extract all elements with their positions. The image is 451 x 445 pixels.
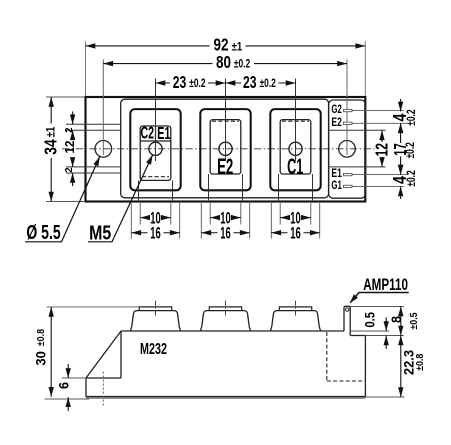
terminal T2 center extension (225, 79, 227, 162)
T1 legs (139, 180, 173, 200)
dim 8 ±0.5 (350, 306, 404, 308)
terminal T2 recess (200, 109, 250, 190)
terminal plate at 225.5 (209, 307, 241, 310)
svg-text:16: 16 (290, 224, 301, 243)
svg-text:±0.2: ±0.2 (234, 58, 251, 71)
mounting hole right (339, 141, 356, 158)
svg-text:G2: G2 (331, 104, 342, 117)
dim 22.3 ±0.8 (365, 396, 404, 398)
terminal T3 center extension (295, 79, 297, 162)
aux pin G1 (344, 185, 353, 187)
dim 80 ±0.2 (103, 63, 347, 65)
svg-text:0.5: 0.5 (363, 312, 378, 327)
horizontal centerline (62, 148, 375, 150)
side view body outline (86, 306, 365, 396)
svg-text:M5: M5 (89, 220, 111, 243)
svg-text:30: 30 (33, 351, 49, 365)
right compartment slot lines (329, 130, 386, 167)
T3 legs (279, 174, 313, 200)
svg-text:±0.2: ±0.2 (405, 142, 418, 159)
terminal bump block at 225.5 (200, 311, 250, 331)
dim 6 (45, 378, 90, 399)
svg-text:±0.2: ±0.2 (406, 109, 419, 126)
dim 10 under T2 (210, 203, 241, 225)
svg-text:12: 12 (62, 140, 77, 153)
hidden recess dashed lines (327, 332, 366, 381)
terminal T3 screw hole (289, 142, 302, 155)
dim 0.5 (350, 330, 389, 332)
terminal plate at 155.5 (139, 307, 171, 310)
dim 12 left (72, 130, 74, 136)
T1 dashed line (142, 176, 169, 178)
aux pin E2 (344, 122, 353, 124)
svg-text:2: 2 (64, 127, 75, 132)
dim 12 right (381, 130, 383, 167)
svg-text:34: 34 (41, 139, 61, 155)
bump centerline tick at 295.5 (295, 301, 297, 317)
pin row extension lines (352, 111, 408, 187)
bump centerline tick at 155.5 (155, 301, 157, 317)
dim 10 under T3 (280, 203, 311, 225)
svg-text:23: 23 (173, 73, 186, 93)
dim 34 ±1 (46, 97, 84, 202)
terminal T1 recess (130, 109, 180, 190)
baseplate bottom heavy line (86, 397, 365, 399)
dim 4 ±0.2 bottom right (398, 165, 403, 175)
dim 30 ±0.8 (47, 306, 140, 308)
dim 16 under T3 (271, 203, 319, 239)
dim 17 ±0.2 right (400, 123, 402, 174)
left slot lines (66, 124, 122, 173)
svg-text:±0.2: ±0.2 (189, 78, 206, 91)
aux pin E1 (344, 173, 353, 175)
terminal T2 pad (210, 120, 241, 174)
right end cap (329, 100, 366, 198)
bump centerline tick at 225.5 (225, 301, 227, 317)
dim 92 ±1 (86, 42, 366, 97)
terminal bump block at 295.5 (270, 311, 320, 331)
svg-text:AMP110: AMP110 (363, 276, 408, 294)
terminal plate at 295.5 (279, 307, 311, 310)
T3 dashed line (282, 120, 309, 122)
T2 legs (209, 174, 243, 200)
terminal T2 screw hole (219, 142, 232, 155)
terminal T1 pad (140, 126, 171, 180)
svg-text:E1: E1 (157, 124, 170, 144)
dim 2 top left (72, 112, 74, 125)
dim 4 ±0.2 top right (400, 99, 402, 111)
svg-text:±0.8: ±0.8 (35, 328, 47, 346)
svg-text:16: 16 (220, 224, 231, 243)
svg-text:2: 2 (64, 167, 75, 172)
svg-text:92: 92 (214, 36, 229, 55)
hole center extension lines (103, 60, 347, 156)
T1 label box (140, 126, 170, 141)
svg-text:12: 12 (372, 143, 392, 156)
svg-text:C2: C2 (141, 124, 155, 144)
svg-text:±0.2: ±0.2 (260, 78, 277, 91)
svg-text:16: 16 (150, 224, 161, 243)
svg-text:±1: ±1 (232, 40, 243, 53)
svg-text:8: 8 (389, 316, 405, 323)
svg-text:±1: ±1 (45, 127, 58, 138)
svg-text:23: 23 (243, 73, 256, 93)
svg-text:±0.5: ±0.5 (408, 312, 420, 330)
aux pin G2 (344, 109, 353, 111)
dim 16 under T2 (201, 203, 249, 239)
svg-text:Ø 5.5: Ø 5.5 (26, 220, 60, 243)
T2 dashed line (212, 120, 239, 122)
terminal T3 recess (270, 109, 320, 190)
dim 23 ±0.2 first (156, 82, 226, 84)
svg-text:±0.8: ±0.8 (414, 353, 426, 371)
terminal bump block at 155.5 (130, 311, 180, 331)
svg-text:80: 80 (216, 53, 231, 72)
terminal T1 screw hole (149, 142, 162, 155)
dim 10 under T1 (140, 203, 171, 225)
terminal T3 pad (280, 120, 311, 174)
svg-text:6: 6 (56, 382, 72, 389)
svg-text:±0.2: ±0.2 (406, 170, 419, 187)
dim 23 ±0.2 second (226, 82, 296, 84)
mounting hole left (95, 141, 112, 158)
svg-text:E2: E2 (331, 117, 342, 130)
AMP110 pin circle (346, 308, 349, 311)
center plateau (121, 99, 329, 198)
mounting hole centerline dashed (102, 372, 104, 406)
terminal T1 center extension (155, 79, 157, 162)
svg-text:G1: G1 (331, 180, 342, 193)
dim 16 under T1 (131, 203, 179, 239)
svg-text:M232: M232 (140, 340, 167, 357)
module top view outline (86, 97, 366, 202)
